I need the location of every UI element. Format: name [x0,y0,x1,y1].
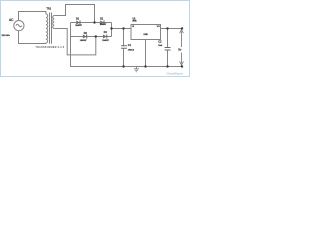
regulator U1 box [131,25,161,40]
diode D4 [102,32,109,42]
svg-text:C1: C1 [128,43,132,47]
svg-text:GND: GND [143,34,148,36]
wire AC bottom to primary [19,31,46,44]
junction node dots [93,21,183,67]
node C2 rail [166,65,168,67]
core line 2 [51,13,53,44]
svg-text:1N4007: 1N4007 [75,25,82,27]
svg-text:1000uf: 1000uf [128,49,135,51]
capacitor C1 plates [121,46,127,49]
diode D3 [80,33,88,42]
wire bridge left vertical and bottom rail [71,23,183,67]
wire AC top to primary [19,12,46,21]
AC source V1 [14,21,24,31]
node U1 gnd rail [144,65,146,67]
svg-text:TRANSFORMER 6-0-6: TRANSFORMER 6-0-6 [35,46,65,49]
svg-text:5v: 5v [178,48,182,52]
secondary coil [53,16,55,29]
node terminal rail [181,65,183,67]
wire bridge top row [71,22,112,24]
wire U1 ground pin [145,40,147,67]
diode D2 [100,19,107,27]
capacitor C1 leads [123,29,125,46]
output terminal arrow down [180,53,184,65]
wire bridge output to U1 input [112,28,132,30]
node top-middle [93,21,95,23]
node C2 top [166,27,168,29]
capacitor C2 plates [165,48,171,51]
svg-text:C2: C2 [158,40,162,44]
svg-text:AC: AC [9,18,14,22]
diode D1 [75,19,82,27]
capacitor C2 leads [167,29,169,48]
svg-text:CircuitDigest: CircuitDigest [167,71,184,75]
node C1 top [122,27,124,29]
svg-text:1N4007: 1N4007 [100,24,107,26]
svg-text:1N4007: 1N4007 [102,40,109,42]
node C1 rail [122,65,124,67]
node output terminal [181,27,183,29]
primary coil [46,14,48,43]
transformer TR1 [46,13,54,44]
wire secondary top to bridge top-middle [54,5,94,23]
wire secondary bottom to bridge bottom-middle [54,29,96,55]
border frame [1,1,190,77]
node bottom-middle [95,35,97,37]
wire bridge bottom row [71,36,112,38]
svg-text:10uf: 10uf [158,45,162,47]
node bridge output [110,27,112,29]
background [0,0,190,77]
svg-text:TR1: TR1 [46,7,51,10]
ground on bottom rail [134,67,139,72]
svg-text:220-240v: 220-240v [2,35,10,37]
wire bridge right vertical [111,23,113,37]
wire U1 output to terminal [161,28,183,30]
output terminal arrow up [180,30,184,47]
svg-text:1N4007: 1N4007 [80,40,87,42]
core line 1 [49,13,51,44]
svg-text:VO: VO [157,26,160,28]
